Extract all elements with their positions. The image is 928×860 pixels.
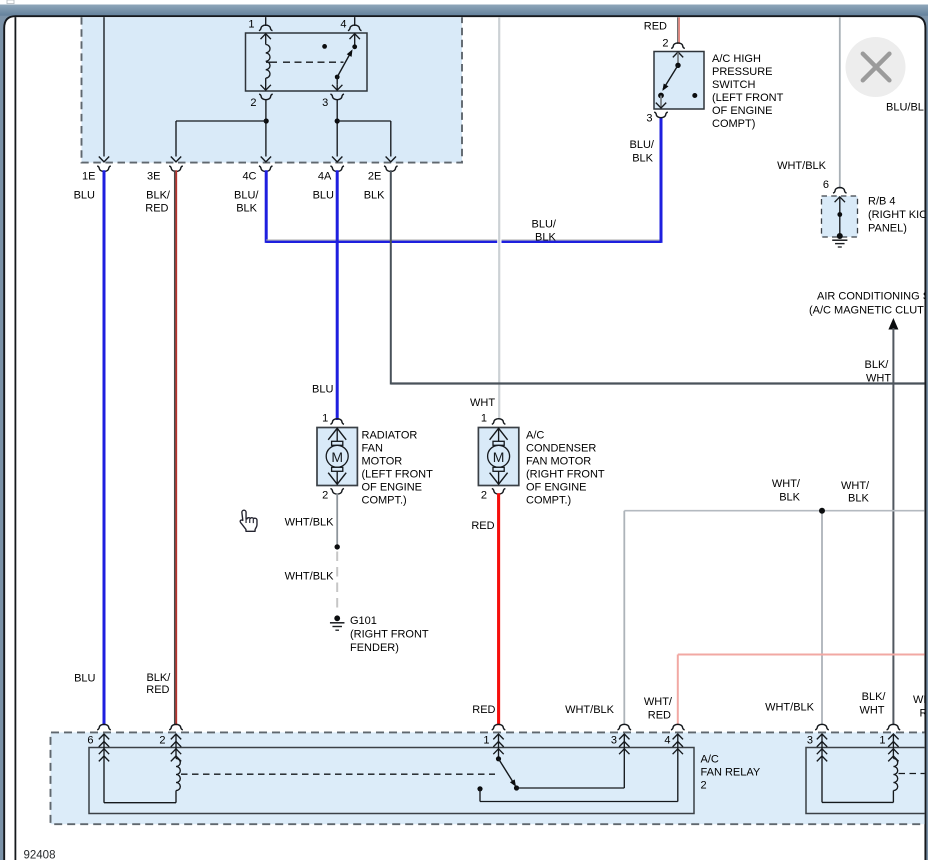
- svg-text:WHT: WHT: [470, 397, 495, 409]
- svg-text:WHT: WHT: [859, 705, 884, 717]
- wire pin 1 (top relay): [265, 16, 267, 26]
- svg-text:RED: RED: [146, 684, 169, 696]
- pin 1 connector and arrows (relay B): [887, 724, 901, 730]
- wire 1E vertical: [103, 16, 105, 156]
- wire WHT/BLK drop to relay B pin 3: [821, 511, 823, 726]
- svg-text:2: 2: [159, 735, 165, 747]
- svg-text:2: 2: [662, 38, 668, 50]
- junction dot WHT/BLK: [335, 544, 340, 549]
- svg-text:FAN MOTOR: FAN MOTOR: [526, 456, 591, 468]
- svg-text:M: M: [493, 449, 505, 465]
- wire BLK 2E vertical: [390, 170, 392, 384]
- svg-text:3: 3: [611, 735, 617, 747]
- wire BLU/BLK riser to pressure switch pin 3: [660, 117, 663, 243]
- junction dot WHT/BLK tee: [819, 508, 825, 514]
- A/C fan relay block (bottom dashed box): [51, 732, 928, 824]
- pin 2 connector and arrows (relay A): [169, 724, 183, 730]
- wire 2E branch: [337, 120, 391, 122]
- relay inner box A: [89, 748, 694, 814]
- wire BLU/BLK 4C vertical: [265, 170, 268, 243]
- svg-text:BLU: BLU: [74, 673, 95, 685]
- ground G101: [334, 615, 340, 621]
- radiator fan motor M1 box: [317, 428, 357, 486]
- svg-text:WHT/: WHT/: [841, 480, 870, 492]
- diagram left border: [14, 17, 16, 860]
- svg-text:1: 1: [248, 18, 254, 30]
- pin 3 exit stem (pressure switch): [660, 96, 662, 108]
- svg-text:FAN RELAY: FAN RELAY: [701, 767, 761, 779]
- svg-text:92408: 92408: [24, 850, 56, 860]
- svg-text:BLU: BLU: [74, 190, 95, 202]
- svg-text:4C: 4C: [242, 171, 256, 183]
- svg-text:2: 2: [322, 490, 328, 502]
- svg-text:RED: RED: [145, 203, 168, 215]
- close (X) button: [846, 37, 906, 97]
- R/B 4 dashed box: [822, 196, 858, 237]
- svg-text:A/C: A/C: [526, 430, 544, 442]
- svg-text:(RIGHT FRONT: (RIGHT FRONT: [526, 469, 605, 481]
- wire BLK/RED 3E (two-tone): [174, 170, 176, 725]
- switch blade with arrow (pressure switch): [663, 65, 678, 89]
- wire NC contact to pin 4 run (relay A): [479, 789, 481, 802]
- svg-text:BLK: BLK: [236, 203, 257, 215]
- svg-text:RED: RED: [472, 704, 495, 716]
- wire WHT/BLK below radiator motor: [336, 494, 338, 547]
- svg-text:BLU/: BLU/: [234, 190, 259, 202]
- svg-text:COMPT): COMPT): [712, 118, 755, 130]
- wire BLK/WHT with arrow to A/C clutch: [888, 318, 898, 330]
- pin 1 entry arrow (radiator fan motor M1): [328, 428, 346, 440]
- dashed actuator line (top relay): [266, 61, 277, 63]
- A/C condenser fan motor M2 box: [478, 428, 518, 486]
- actuator dashed line (relay B): [899, 773, 925, 775]
- svg-text:WHT/BLK: WHT/BLK: [765, 702, 815, 714]
- svg-text:FENDER): FENDER): [350, 642, 399, 654]
- pin 1 connector cup (radiator fan motor M1): [330, 419, 344, 425]
- junction dot (R/B 4): [837, 212, 842, 217]
- svg-text:CONDENSER: CONDENSER: [526, 443, 596, 455]
- pin 6 connector cup (R/B 4): [833, 188, 847, 194]
- coil (relay B): [893, 759, 897, 791]
- svg-text:WHT: WHT: [866, 372, 891, 384]
- switch blade with arrow (top relay): [337, 54, 350, 78]
- pin 2 exit arrow (radiator fan motor M1): [336, 471, 338, 484]
- wire BLU/BLK horizontal run (two-tone): [266, 239, 497, 241]
- svg-text:RED: RED: [644, 21, 667, 33]
- svg-text:2: 2: [250, 97, 256, 109]
- svg-text:6: 6: [87, 735, 93, 747]
- svg-text:PRESSURE: PRESSURE: [712, 66, 773, 78]
- mouse hand cursor: [240, 510, 257, 531]
- pin 3 exit (top relay): [330, 94, 344, 100]
- svg-text:WHT/BLK: WHT/BLK: [285, 517, 335, 529]
- svg-text:4: 4: [664, 735, 670, 747]
- pin 3 connector cup (pressure switch): [654, 112, 668, 118]
- svg-text:4: 4: [340, 18, 346, 30]
- svg-text:WHT/: WHT/: [644, 696, 673, 708]
- ground node dot (R/B 4): [837, 233, 843, 239]
- switch pivot dot (relay A): [496, 756, 501, 761]
- svg-text:2: 2: [481, 490, 487, 502]
- svg-text:G101: G101: [350, 615, 377, 627]
- switch contact dot NC (top relay): [322, 44, 327, 49]
- svg-text:(LEFT FRONT: (LEFT FRONT: [712, 92, 784, 104]
- svg-text:BLK: BLK: [848, 493, 869, 505]
- svg-text:3: 3: [807, 735, 813, 747]
- pin 2 connector cup (pressure switch): [671, 43, 685, 49]
- wire pin 4 (top relay): [354, 16, 356, 26]
- svg-text:A/C: A/C: [701, 754, 719, 766]
- wire RED (condenser motor to relay): [497, 493, 500, 725]
- svg-text:R/B 4: R/B 4: [868, 196, 896, 208]
- pin 1 entry arrow (A/C condenser fan motor M2): [490, 428, 508, 440]
- wire WHT/RED horizontal run (pink): [678, 654, 925, 656]
- svg-text:2E: 2E: [368, 171, 381, 183]
- svg-text:OF ENGINE: OF ENGINE: [526, 482, 587, 494]
- pin 6 entry arrow and stem (R/B 4): [835, 197, 845, 202]
- pin 6 connector and arrows (relay A): [97, 724, 111, 730]
- spare contact dot (pressure switch): [692, 93, 697, 98]
- wire WHT/BLK drop to relay pin 3: [623, 511, 625, 726]
- ground (R/B 4): [832, 239, 847, 241]
- svg-text:COMPT.): COMPT.): [362, 495, 407, 507]
- svg-text:(LEFT FRONT: (LEFT FRONT: [362, 469, 434, 481]
- switch contact dot NO (relay A): [514, 785, 519, 790]
- relay inner box B: [806, 748, 928, 814]
- svg-text:6: 6: [823, 179, 829, 191]
- pin 3 connector and arrows (relay B): [815, 724, 829, 730]
- coil (relay A): [176, 759, 180, 791]
- svg-text:BLU: BLU: [312, 384, 333, 396]
- wire BLU 4A (to radiator motor): [336, 170, 339, 420]
- svg-text:BLK/: BLK/: [865, 359, 890, 371]
- wire WHT/BLK horizontal run (right): [624, 510, 925, 512]
- svg-text:SWITCH: SWITCH: [712, 79, 755, 91]
- svg-text:BLK: BLK: [535, 231, 556, 243]
- wire WHT/BLK (to R/B 4): [839, 17, 841, 189]
- contact dot pin 3 (pressure switch): [658, 93, 664, 99]
- svg-text:1: 1: [481, 413, 487, 425]
- svg-text:AIR CONDITIONING SYSTEM: AIR CONDITIONING SYSTEM: [817, 291, 928, 303]
- svg-text:RADIATOR: RADIATOR: [362, 430, 418, 442]
- wire WHT/RED drop to relay pin 4: [677, 655, 679, 726]
- actuator dashed line (relay A): [181, 773, 495, 775]
- svg-text:3E: 3E: [147, 171, 160, 183]
- svg-text:MOTOR: MOTOR: [362, 456, 403, 468]
- wire 3E branch: [176, 120, 266, 122]
- svg-text:1E: 1E: [82, 171, 95, 183]
- svg-text:BLK: BLK: [364, 190, 385, 202]
- wire BLU 1E: [103, 170, 106, 725]
- svg-text:WHT/: WHT/: [772, 478, 801, 490]
- pin 2 connector cup (radiator fan motor M1): [330, 489, 344, 495]
- svg-text:(RIGHT FRONT: (RIGHT FRONT: [350, 628, 429, 640]
- wire pin 3 stem (top relay): [336, 77, 338, 85]
- svg-text:(A/C MAGNETIC CLUTCH): (A/C MAGNETIC CLUTCH): [809, 305, 928, 317]
- svg-text:BLU: BLU: [313, 190, 334, 202]
- svg-text:BLK: BLK: [632, 153, 653, 165]
- svg-text:BLK/: BLK/: [146, 190, 171, 202]
- engine room relay block (top dashed box): [82, 17, 463, 163]
- svg-text:WHT/BLK: WHT/BLK: [285, 571, 335, 583]
- svg-text:BLU/: BLU/: [630, 139, 655, 151]
- svg-text:4A: 4A: [318, 171, 332, 183]
- svg-text:A/C HIGH: A/C HIGH: [712, 53, 761, 65]
- motor symbol M (radiator fan motor M1): [332, 441, 343, 445]
- svg-text:RED: RED: [648, 710, 671, 722]
- connector cups below relay block: [97, 166, 111, 172]
- svg-text:1: 1: [322, 413, 328, 425]
- pin 2 exit arrow (A/C condenser fan motor M2): [498, 471, 500, 484]
- svg-text:OF ENGINE: OF ENGINE: [362, 482, 423, 494]
- pin 2 exit (top relay): [259, 94, 273, 100]
- switch contact dot NC (relay A): [477, 786, 482, 791]
- wire pin 6 internal run (relay A): [103, 734, 105, 803]
- pin 2 connector cup (A/C condenser fan motor M2): [492, 489, 506, 495]
- wire RED (top, to pressure switch): [677, 17, 679, 44]
- wire WHT (to A/C condenser motor): [498, 17, 500, 420]
- svg-text:1: 1: [879, 735, 885, 747]
- svg-text:3: 3: [322, 97, 328, 109]
- switch blade with arrow (relay A): [499, 759, 515, 785]
- svg-text:WHT/BLK: WHT/BLK: [565, 704, 615, 716]
- switch pivot dot pin 3 (top relay): [335, 75, 340, 80]
- relay coil/switch box (top relay): [246, 33, 368, 91]
- coil (top relay): [266, 45, 270, 79]
- svg-text:1: 1: [483, 735, 489, 747]
- pin 1 connector cup (A/C condenser fan motor M2): [492, 419, 506, 425]
- pin 3 connector and arrows (relay A): [618, 724, 632, 730]
- pin 1 connector and arrows (relay A switch common): [492, 724, 506, 730]
- svg-text:M: M: [331, 449, 343, 465]
- svg-text:COMPT.): COMPT.): [526, 495, 571, 507]
- motor symbol M (A/C condenser fan motor M2): [493, 441, 504, 445]
- svg-text:2: 2: [701, 780, 707, 792]
- svg-text:WHT/BLK: WHT/BLK: [777, 160, 827, 172]
- pin 4 connector and arrows (relay A): [671, 724, 685, 730]
- switch contact dot pin 4 (top relay): [352, 44, 357, 49]
- svg-text:BLK/: BLK/: [862, 691, 887, 703]
- wire BLK horizontal run to page edge: [391, 382, 925, 384]
- wire WHT/BLK dashed segment to ground: [336, 552, 338, 614]
- svg-text:PANEL): PANEL): [868, 222, 907, 234]
- contact dot pin 2 (pressure switch): [675, 63, 680, 68]
- svg-text:BLU/: BLU/: [532, 219, 557, 231]
- svg-text:RED: RED: [471, 520, 494, 532]
- svg-text:BLK/: BLK/: [146, 672, 171, 684]
- svg-text:(RIGHT KICK: (RIGHT KICK: [868, 209, 928, 221]
- pressure switch S1 box: [654, 52, 704, 110]
- svg-text:FAN: FAN: [362, 443, 383, 455]
- wire pin 3 internal run (relay A): [623, 734, 625, 788]
- pin 2 entry arrow (pressure switch): [673, 52, 683, 57]
- wire pin 3 internal run (relay B): [821, 734, 823, 802]
- svg-text:BLU/BLK: BLU/BLK: [886, 102, 928, 114]
- svg-text:3: 3: [646, 113, 652, 125]
- svg-text:OF ENGINE: OF ENGINE: [712, 105, 773, 117]
- svg-text:BLK: BLK: [779, 491, 800, 503]
